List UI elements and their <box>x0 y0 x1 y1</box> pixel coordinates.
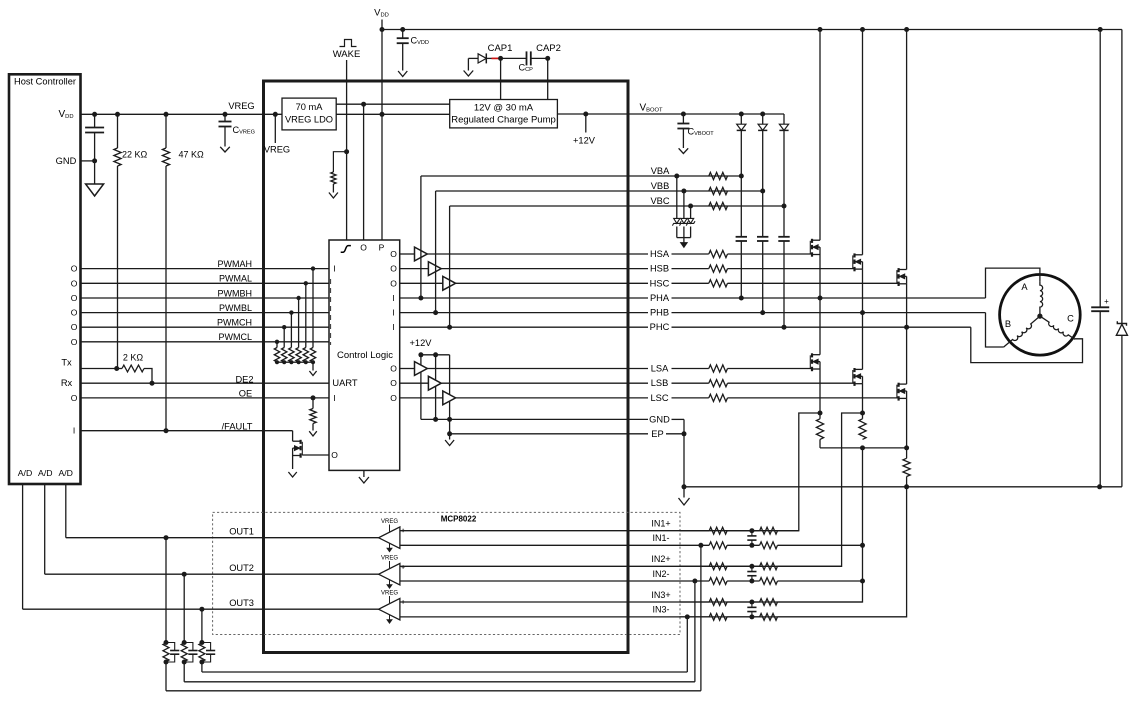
svg-text:PWMBH: PWMBH <box>218 288 253 298</box>
svg-text:LSA: LSA <box>651 364 669 374</box>
svg-text:A/D: A/D <box>38 468 52 478</box>
svg-text:I: I <box>392 322 394 332</box>
svg-text:P: P <box>379 243 385 253</box>
svg-text:HSA: HSA <box>650 249 670 259</box>
svg-text:EP: EP <box>651 429 663 439</box>
svg-text:HSB: HSB <box>650 264 669 274</box>
svg-text:OUT1: OUT1 <box>229 526 254 536</box>
svg-text:B: B <box>1005 319 1011 329</box>
svg-text:MCP8022: MCP8022 <box>441 515 477 524</box>
svg-text:A/D: A/D <box>18 468 32 478</box>
svg-text:O: O <box>71 393 78 403</box>
svg-text:PWMBL: PWMBL <box>219 303 252 313</box>
svg-text:A: A <box>1021 282 1028 292</box>
svg-text:IN3+: IN3+ <box>651 590 670 600</box>
svg-text:I: I <box>73 426 75 436</box>
svg-text:70 mA: 70 mA <box>296 102 324 112</box>
svg-text:+12V: +12V <box>573 136 596 146</box>
svg-text:IN2+: IN2+ <box>651 554 670 564</box>
svg-text:Control Logic: Control Logic <box>337 350 393 361</box>
svg-text:/FAULT: /FAULT <box>222 422 253 432</box>
svg-text:VBB: VBB <box>651 181 670 191</box>
svg-text:GND: GND <box>56 156 77 166</box>
svg-text:CAP2: CAP2 <box>536 43 561 54</box>
svg-text:I: I <box>392 308 394 318</box>
svg-text:PHC: PHC <box>650 322 670 332</box>
svg-text:UART: UART <box>332 378 357 388</box>
svg-text:WAKE: WAKE <box>333 49 361 60</box>
svg-text:PWMCL: PWMCL <box>219 332 253 342</box>
svg-text:PWMAH: PWMAH <box>218 259 253 269</box>
svg-text:DE2: DE2 <box>235 375 253 385</box>
svg-text:LSB: LSB <box>651 378 669 388</box>
svg-text:+12V: +12V <box>410 338 433 348</box>
svg-text:O: O <box>71 293 78 303</box>
svg-text:O: O <box>71 337 78 347</box>
svg-text:O: O <box>71 322 78 332</box>
svg-text:C: C <box>1067 314 1074 324</box>
svg-text:47 KΩ: 47 KΩ <box>179 150 205 160</box>
svg-text:O: O <box>390 378 397 388</box>
svg-text:GND: GND <box>649 414 670 424</box>
svg-text:IN1+: IN1+ <box>651 519 670 529</box>
svg-text:Rx: Rx <box>61 378 73 388</box>
svg-text:O: O <box>71 308 78 318</box>
svg-text:VREG: VREG <box>381 519 398 525</box>
svg-text:O: O <box>390 249 397 259</box>
svg-text:VREG: VREG <box>381 590 398 596</box>
svg-text:Host Controller: Host Controller <box>14 77 76 87</box>
svg-text:VREG: VREG <box>264 145 290 155</box>
svg-text:PWMAL: PWMAL <box>219 274 252 284</box>
svg-text:O: O <box>390 278 397 288</box>
svg-text:12V @ 30 mA: 12V @ 30 mA <box>474 103 534 114</box>
svg-text:OE: OE <box>239 389 252 399</box>
svg-text:O: O <box>71 278 78 288</box>
svg-text:O: O <box>360 243 367 253</box>
svg-text:VBA: VBA <box>651 166 670 176</box>
svg-text:O: O <box>390 264 397 274</box>
svg-text:VREG LDO: VREG LDO <box>285 115 333 125</box>
svg-text:IN1-: IN1- <box>652 533 669 543</box>
svg-text:22 KΩ: 22 KΩ <box>122 150 148 160</box>
svg-text:2 KΩ: 2 KΩ <box>123 353 144 363</box>
svg-text:O: O <box>390 393 397 403</box>
svg-text:VREG: VREG <box>381 555 398 561</box>
svg-text:I: I <box>392 293 394 303</box>
svg-text:O: O <box>71 264 78 274</box>
svg-text:HSC: HSC <box>650 278 670 288</box>
svg-text:VREG: VREG <box>228 101 254 111</box>
svg-text:PHB: PHB <box>650 308 669 318</box>
svg-text:Tx: Tx <box>61 358 72 368</box>
svg-text:OUT2: OUT2 <box>229 563 254 573</box>
svg-text:+: + <box>1104 297 1109 306</box>
svg-text:VBC: VBC <box>650 196 669 206</box>
svg-text:A/D: A/D <box>58 468 72 478</box>
svg-text:I: I <box>333 264 335 274</box>
svg-text:PWMCH: PWMCH <box>217 318 252 328</box>
svg-text:LSC: LSC <box>650 393 668 403</box>
svg-text:Regulated Charge Pump: Regulated Charge Pump <box>451 115 556 126</box>
svg-text:OUT3: OUT3 <box>229 598 254 608</box>
svg-text:O: O <box>390 364 397 374</box>
svg-text:CAP1: CAP1 <box>488 43 513 54</box>
svg-text:IN3-: IN3- <box>652 605 669 615</box>
svg-text:O: O <box>331 450 338 460</box>
svg-text:IN2-: IN2- <box>652 569 669 579</box>
svg-text:PHA: PHA <box>650 293 670 303</box>
svg-text:I: I <box>333 393 335 403</box>
